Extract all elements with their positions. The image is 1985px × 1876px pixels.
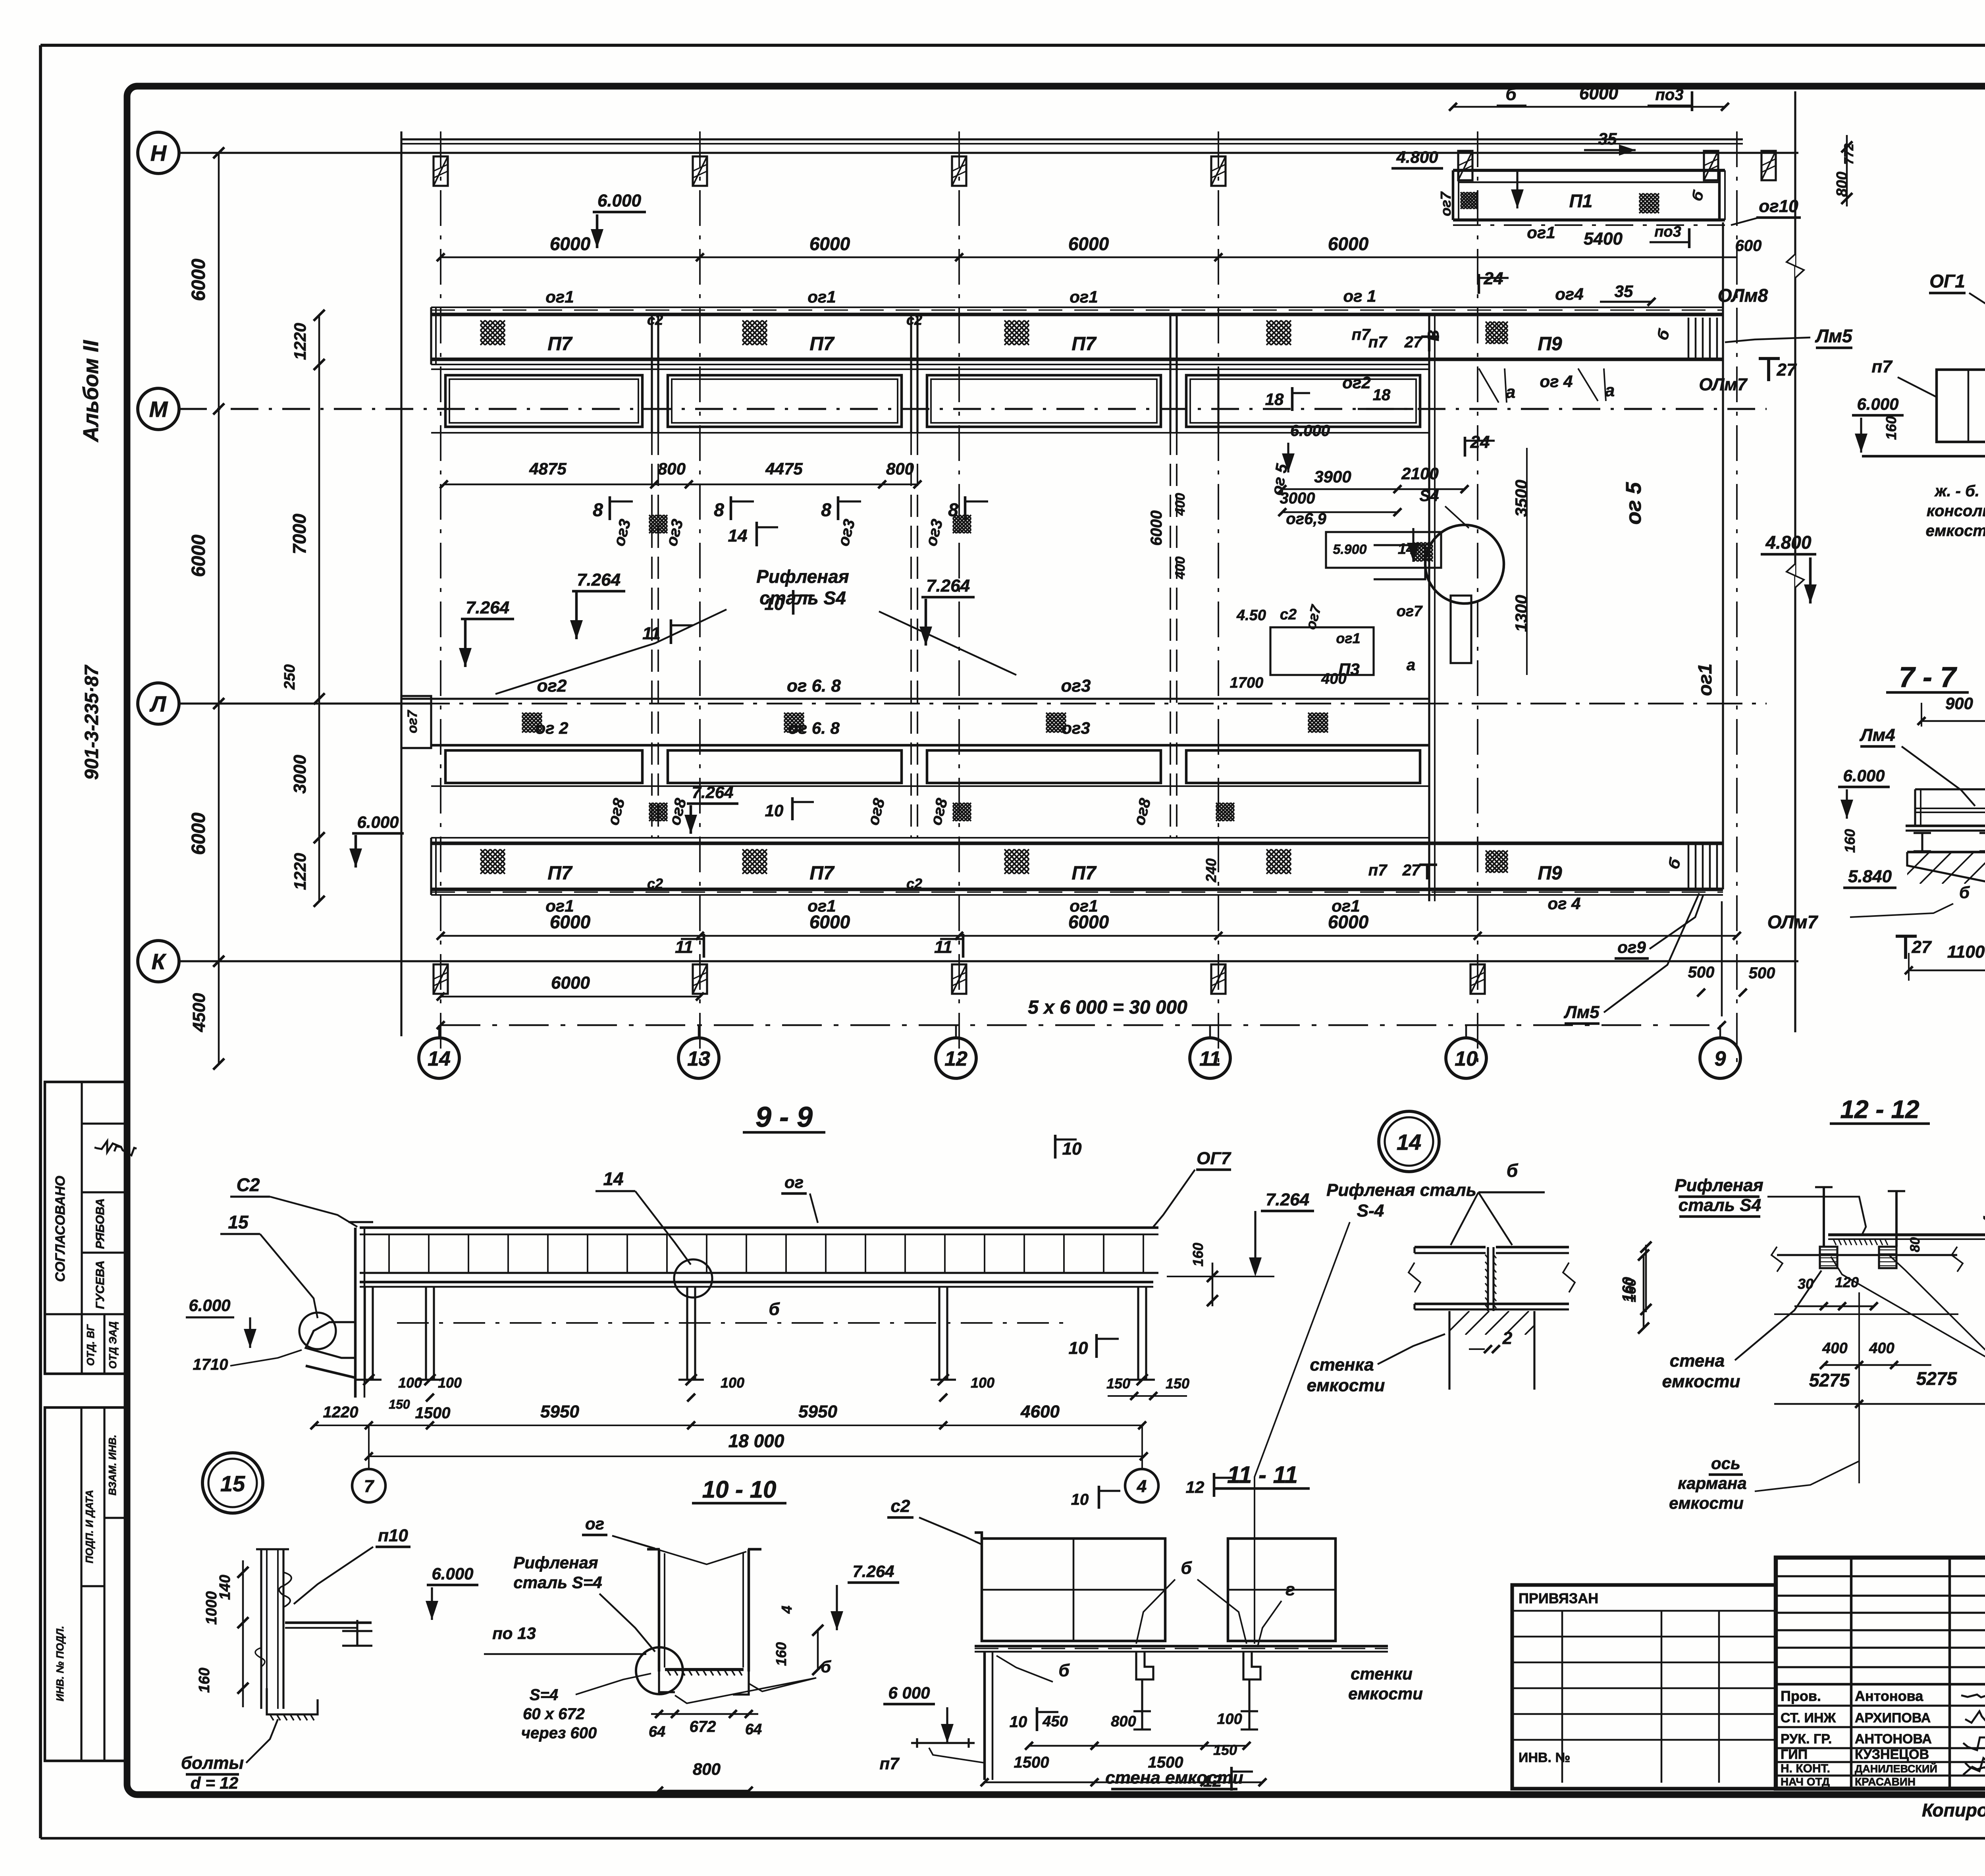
- svg-text:ог1: ог1: [1695, 663, 1716, 696]
- svg-text:п7: п7: [1871, 357, 1893, 376]
- svg-text:ог7: ог7: [405, 710, 420, 733]
- svg-text:Лм5: Лм5: [1815, 326, 1853, 346]
- svg-text:6000: 6000: [1328, 912, 1369, 932]
- svg-text:250: 250: [281, 664, 298, 690]
- svg-text:б: б: [821, 1657, 831, 1676]
- svg-text:1500: 1500: [1014, 1754, 1049, 1771]
- svg-text:ГУСЕВА: ГУСЕВА: [94, 1261, 107, 1309]
- svg-text:К: К: [152, 949, 167, 974]
- svg-text:ог3: ог3: [1062, 719, 1090, 737]
- svg-text:по3: по3: [1655, 86, 1683, 104]
- svg-text:АНТОНОВА: АНТОНОВА: [1855, 1731, 1932, 1747]
- svg-text:6.000: 6.000: [597, 191, 642, 210]
- svg-text:6 000: 6 000: [888, 1683, 930, 1702]
- svg-text:консоль: консоль: [1927, 502, 1985, 520]
- svg-text:п10: п10: [378, 1526, 408, 1545]
- svg-text:800: 800: [693, 1760, 721, 1778]
- svg-text:6000: 6000: [1328, 233, 1369, 254]
- svg-text:ог 4: ог 4: [1548, 894, 1580, 913]
- svg-text:СТ. ИНЖ: СТ. ИНЖ: [1781, 1710, 1836, 1726]
- svg-text:Л: Л: [149, 691, 167, 716]
- svg-text:11: 11: [675, 937, 693, 957]
- svg-text:ог1: ог1: [1070, 287, 1098, 306]
- svg-text:10: 10: [1455, 1047, 1478, 1070]
- svg-text:800: 800: [658, 459, 686, 478]
- svg-text:S4: S4: [1420, 487, 1439, 505]
- svg-text:кармана: кармана: [1678, 1474, 1746, 1492]
- svg-text:с2: с2: [1280, 606, 1297, 623]
- svg-text:б: б: [769, 1300, 780, 1319]
- svg-text:400: 400: [1321, 671, 1346, 687]
- svg-text:12: 12: [1186, 1478, 1204, 1496]
- svg-text:ог6,9: ог6,9: [1286, 510, 1326, 528]
- svg-text:8: 8: [593, 499, 603, 520]
- svg-text:5275: 5275: [1916, 1368, 1958, 1389]
- svg-text:27: 27: [1777, 360, 1797, 380]
- svg-text:ог 2: ог 2: [535, 719, 568, 737]
- svg-text:7.264: 7.264: [577, 570, 621, 590]
- svg-text:14: 14: [428, 1047, 451, 1070]
- svg-text:60 х 672: 60 х 672: [523, 1705, 585, 1723]
- svg-text:18 000: 18 000: [728, 1431, 784, 1451]
- svg-text:100: 100: [721, 1375, 744, 1391]
- svg-text:с2: с2: [647, 875, 663, 892]
- svg-text:емкости: емкости: [1307, 1376, 1385, 1395]
- svg-text:400: 400: [1173, 557, 1188, 580]
- svg-text:160: 160: [1883, 416, 1899, 440]
- svg-text:П7: П7: [1072, 334, 1097, 355]
- svg-text:через 600: через 600: [521, 1724, 597, 1742]
- svg-text:ОЛм8: ОЛм8: [1718, 285, 1768, 306]
- svg-text:ИНВ. №: ИНВ. №: [1519, 1750, 1570, 1765]
- svg-text:5400: 5400: [1584, 229, 1623, 249]
- svg-text:ог7: ог7: [1438, 191, 1454, 216]
- svg-text:80: 80: [1908, 1237, 1923, 1252]
- svg-text:ПОДП. И ДАТА: ПОДП. И ДАТА: [83, 1490, 95, 1563]
- svg-text:емкости: емкости: [1348, 1684, 1423, 1703]
- svg-text:ОГ1: ОГ1: [1929, 271, 1965, 291]
- svg-text:п7: п7: [879, 1754, 900, 1773]
- svg-text:по 13: по 13: [492, 1624, 536, 1643]
- svg-text:400: 400: [1173, 493, 1188, 516]
- svg-text:15: 15: [220, 1471, 245, 1496]
- svg-text:2100: 2100: [1401, 464, 1438, 483]
- svg-text:Лм4: Лм4: [1859, 725, 1895, 745]
- svg-text:Лм5: Лм5: [1563, 1003, 1600, 1022]
- svg-text:ог: ог: [585, 1514, 604, 1533]
- svg-text:В: В: [1425, 330, 1442, 341]
- svg-text:3000: 3000: [290, 755, 310, 794]
- svg-text:ОЛм7: ОЛм7: [1767, 912, 1819, 932]
- svg-text:11: 11: [934, 937, 952, 957]
- svg-text:стена емкости: стена емкости: [1105, 1768, 1243, 1787]
- svg-text:1500: 1500: [415, 1404, 451, 1422]
- svg-text:КРАСАВИН: КРАСАВИН: [1855, 1776, 1916, 1788]
- svg-text:13: 13: [687, 1047, 710, 1070]
- svg-text:П7: П7: [809, 863, 835, 884]
- svg-text:емкости: емкости: [1926, 522, 1985, 540]
- svg-text:6.000: 6.000: [1843, 766, 1885, 785]
- svg-text:ог2: ог2: [537, 676, 567, 696]
- svg-text:11: 11: [1199, 1047, 1221, 1070]
- svg-text:АРХИПОВА: АРХИПОВА: [1855, 1710, 1931, 1726]
- svg-text:100: 100: [438, 1375, 462, 1391]
- svg-text:12 - 12: 12 - 12: [1840, 1095, 1919, 1124]
- svg-text:100: 100: [398, 1375, 422, 1391]
- svg-text:КУЗНЕЦОВ: КУЗНЕЦОВ: [1855, 1747, 1929, 1762]
- svg-text:27: 27: [1402, 862, 1421, 879]
- svg-text:1000: 1000: [203, 1591, 220, 1625]
- svg-text:6000: 6000: [551, 973, 590, 993]
- svg-text:d = 12: d = 12: [191, 1774, 238, 1792]
- svg-text:ог7: ог7: [1397, 603, 1423, 620]
- svg-text:ог3: ог3: [1061, 676, 1091, 696]
- svg-text:27: 27: [1912, 937, 1932, 957]
- svg-text:Рифленая: Рифленая: [1675, 1176, 1763, 1195]
- svg-text:6000: 6000: [1148, 511, 1165, 546]
- svg-text:6000: 6000: [188, 534, 209, 577]
- svg-text:ог: ог: [784, 1173, 804, 1192]
- svg-text:4500: 4500: [189, 993, 209, 1032]
- svg-text:10: 10: [765, 594, 784, 614]
- svg-text:4.50: 4.50: [1236, 607, 1266, 624]
- svg-text:7.264: 7.264: [466, 598, 509, 617]
- svg-text:ГИП: ГИП: [1781, 1747, 1808, 1762]
- svg-text:П1: П1: [1569, 191, 1593, 211]
- svg-text:1700: 1700: [1230, 675, 1264, 691]
- svg-text:150: 150: [389, 1397, 410, 1411]
- svg-text:б: б: [1181, 1558, 1192, 1578]
- svg-text:27: 27: [1404, 334, 1423, 351]
- svg-text:а: а: [1506, 382, 1515, 402]
- svg-text:10: 10: [1010, 1713, 1027, 1731]
- svg-text:18: 18: [1373, 386, 1391, 404]
- svg-text:800: 800: [1834, 172, 1850, 197]
- svg-text:4: 4: [779, 1606, 795, 1614]
- svg-text:ИНВ. № ПОДЛ.: ИНВ. № ПОДЛ.: [54, 1626, 66, 1701]
- svg-text:9: 9: [1715, 1047, 1726, 1070]
- svg-text:б: б: [1505, 85, 1517, 104]
- svg-text:4.800: 4.800: [1396, 148, 1438, 166]
- svg-text:ось: ось: [1711, 1454, 1740, 1473]
- svg-text:по3: по3: [1654, 224, 1681, 240]
- svg-text:6.000: 6.000: [1857, 395, 1898, 413]
- svg-text:240: 240: [1203, 858, 1219, 883]
- svg-text:6000: 6000: [809, 233, 850, 254]
- svg-text:64: 64: [649, 1724, 665, 1740]
- svg-text:6000: 6000: [550, 912, 591, 932]
- svg-text:160: 160: [773, 1642, 789, 1666]
- svg-text:4475: 4475: [765, 459, 803, 478]
- svg-text:672: 672: [690, 1718, 716, 1735]
- svg-text:S=4: S=4: [530, 1686, 558, 1704]
- svg-text:5275: 5275: [1809, 1370, 1850, 1390]
- svg-text:10: 10: [1062, 1139, 1082, 1159]
- svg-text:800: 800: [1111, 1713, 1136, 1730]
- svg-text:С2: С2: [237, 1174, 260, 1195]
- svg-text:10: 10: [1069, 1338, 1088, 1358]
- svg-text:14: 14: [603, 1168, 623, 1189]
- svg-text:стенка: стенка: [1310, 1355, 1374, 1375]
- svg-text:ОТД ЭАД: ОТД ЭАД: [107, 1321, 119, 1369]
- svg-text:Рифленая сталь: Рифленая сталь: [1326, 1180, 1476, 1200]
- svg-text:6000: 6000: [188, 258, 209, 301]
- svg-text:24: 24: [1470, 432, 1490, 452]
- svg-text:150: 150: [1166, 1375, 1189, 1392]
- svg-text:с2: с2: [906, 875, 922, 892]
- svg-text:7: 7: [364, 1477, 375, 1496]
- svg-text:Пров.: Пров.: [1781, 1688, 1821, 1704]
- svg-text:6000: 6000: [1068, 233, 1109, 254]
- svg-text:8: 8: [821, 499, 831, 520]
- svg-text:НАЧ ОТД: НАЧ ОТД: [1781, 1776, 1830, 1788]
- svg-text:7.264: 7.264: [1266, 1190, 1309, 1209]
- svg-text:РЯБОВА: РЯБОВА: [94, 1198, 107, 1249]
- svg-text:4.800: 4.800: [1765, 532, 1812, 553]
- svg-text:ог9: ог9: [1617, 938, 1646, 956]
- svg-text:35: 35: [1615, 282, 1633, 301]
- svg-text:ОГ7: ОГ7: [1197, 1149, 1231, 1168]
- svg-text:160: 160: [1623, 1278, 1639, 1302]
- svg-text:Альбом II: Альбом II: [79, 340, 103, 443]
- svg-text:РУК. ГР.: РУК. ГР.: [1781, 1731, 1832, 1747]
- svg-text:100: 100: [1217, 1711, 1242, 1728]
- svg-text:ог1: ог1: [545, 287, 574, 306]
- svg-text:сталь S=4: сталь S=4: [513, 1573, 602, 1592]
- svg-text:СОГЛАСОВАНО: СОГЛАСОВАНО: [53, 1176, 68, 1282]
- svg-text:500: 500: [1749, 964, 1775, 982]
- svg-text:11 - 11: 11 - 11: [1227, 1461, 1298, 1488]
- svg-text:7.264: 7.264: [852, 1562, 894, 1581]
- svg-text:5.900: 5.900: [1333, 542, 1366, 557]
- svg-text:стена: стена: [1670, 1351, 1725, 1371]
- svg-text:7.264: 7.264: [926, 576, 970, 596]
- svg-text:5950: 5950: [798, 1402, 837, 1421]
- svg-text:Копировал: Антипово: Копировал: Антипово: [1922, 1800, 1985, 1820]
- svg-text:3000: 3000: [1280, 490, 1315, 507]
- svg-text:6000: 6000: [809, 912, 850, 932]
- svg-text:14: 14: [1397, 1130, 1421, 1155]
- svg-text:1710: 1710: [193, 1356, 228, 1373]
- svg-text:Рифленая: Рифленая: [513, 1553, 598, 1572]
- svg-text:ПРИВЯЗАН: ПРИВЯЗАН: [1519, 1590, 1598, 1606]
- svg-text:8: 8: [714, 499, 724, 520]
- svg-text:6000: 6000: [188, 812, 209, 855]
- svg-text:Антонова: Антонова: [1855, 1688, 1923, 1704]
- svg-text:П7: П7: [547, 334, 573, 355]
- svg-text:450: 450: [1042, 1713, 1068, 1730]
- svg-text:6.000: 6.000: [432, 1564, 473, 1583]
- svg-text:п7: п7: [1368, 334, 1388, 351]
- svg-text:10: 10: [1071, 1491, 1089, 1508]
- svg-text:12: 12: [944, 1047, 967, 1070]
- svg-text:ог2: ог2: [1342, 373, 1370, 392]
- svg-text:9 - 9: 9 - 9: [755, 1101, 813, 1133]
- svg-text:14: 14: [728, 526, 748, 546]
- svg-text:с2: с2: [906, 312, 922, 328]
- svg-text:г: г: [1285, 1580, 1295, 1599]
- svg-text:Рифленая: Рифленая: [756, 566, 849, 587]
- svg-text:ог4: ог4: [1555, 285, 1583, 303]
- svg-text:S-4: S-4: [1357, 1201, 1384, 1220]
- svg-text:ог1: ог1: [807, 287, 836, 306]
- svg-text:ог 6. 8: ог 6. 8: [787, 676, 841, 696]
- svg-text:б: б: [1959, 883, 1970, 902]
- svg-text:б: б: [1507, 1160, 1519, 1181]
- svg-text:11: 11: [642, 624, 661, 643]
- svg-text:150: 150: [1106, 1375, 1130, 1392]
- svg-text:150: 150: [1213, 1742, 1237, 1758]
- svg-text:ог 1: ог 1: [1343, 287, 1376, 305]
- svg-text:6000: 6000: [1579, 84, 1618, 103]
- svg-text:6.000: 6.000: [1290, 422, 1330, 440]
- svg-text:400: 400: [1822, 1340, 1847, 1357]
- svg-text:п7: п7: [1368, 862, 1388, 879]
- svg-text:1220: 1220: [323, 1404, 358, 1421]
- svg-text:с2: с2: [647, 312, 663, 328]
- svg-text:стенки: стенки: [1351, 1664, 1413, 1683]
- svg-text:ОТД. ВГ: ОТД. ВГ: [85, 1324, 96, 1366]
- svg-text:6.000: 6.000: [189, 1296, 230, 1315]
- svg-text:ог 6. 8: ог 6. 8: [788, 719, 840, 737]
- svg-text:П7: П7: [1072, 863, 1097, 884]
- svg-text:ДАНИЛЕВСКИЙ: ДАНИЛЕВСКИЙ: [1855, 1762, 1937, 1775]
- svg-text:6.000: 6.000: [357, 813, 399, 831]
- svg-text:10: 10: [765, 801, 784, 820]
- svg-text:800: 800: [886, 459, 914, 478]
- svg-text:30: 30: [1798, 1276, 1813, 1292]
- svg-text:6000: 6000: [1068, 912, 1109, 932]
- svg-text:35: 35: [1598, 129, 1617, 148]
- svg-text:П7: П7: [547, 863, 573, 884]
- svg-text:сталь S4: сталь S4: [1679, 1195, 1761, 1215]
- svg-text:П9: П9: [1538, 863, 1562, 884]
- svg-text:5950: 5950: [540, 1402, 579, 1421]
- svg-text:а: а: [1605, 381, 1615, 400]
- svg-text:ВЗАМ. ИНВ.: ВЗАМ. ИНВ.: [106, 1434, 118, 1495]
- svg-text:100: 100: [971, 1375, 994, 1391]
- svg-text:7 - 7: 7 - 7: [1899, 661, 1957, 693]
- svg-text:400: 400: [1869, 1340, 1894, 1357]
- svg-text:2: 2: [1502, 1328, 1513, 1348]
- svg-text:ог 5: ог 5: [1622, 482, 1646, 525]
- svg-text:64: 64: [745, 1721, 762, 1738]
- svg-text:ог10: ог10: [1759, 197, 1798, 216]
- svg-text:ог 4: ог 4: [1540, 372, 1573, 391]
- svg-text:4875: 4875: [529, 459, 567, 478]
- svg-text:ог1: ог1: [1527, 223, 1555, 242]
- svg-text:ог1: ог1: [1336, 630, 1360, 646]
- svg-text:1100: 1100: [1947, 942, 1985, 962]
- svg-text:18: 18: [1265, 390, 1284, 409]
- svg-text:с2: с2: [891, 1496, 910, 1516]
- svg-text:900: 900: [1945, 694, 1973, 713]
- svg-text:160: 160: [1190, 1243, 1206, 1267]
- svg-text:1220: 1220: [291, 323, 309, 360]
- svg-text:3900: 3900: [1314, 467, 1351, 486]
- svg-text:а: а: [1407, 656, 1415, 674]
- svg-text:П7: П7: [809, 334, 835, 355]
- svg-text:ж. - б.: ж. - б.: [1934, 482, 1979, 500]
- svg-text:160: 160: [196, 1668, 213, 1693]
- svg-text:160: 160: [1842, 829, 1858, 853]
- svg-text:500: 500: [1688, 964, 1715, 981]
- svg-text:4: 4: [1137, 1477, 1147, 1496]
- svg-text:М: М: [149, 397, 168, 422]
- svg-text:4: 4: [1980, 1216, 1985, 1224]
- svg-text:7000: 7000: [289, 513, 310, 554]
- svg-text:Н. КОНТ.: Н. КОНТ.: [1781, 1762, 1830, 1775]
- svg-text:б: б: [1058, 1661, 1070, 1680]
- svg-text:болты: болты: [181, 1753, 244, 1773]
- svg-text:901-3-235·87: 901-3-235·87: [81, 665, 102, 780]
- svg-text:1220: 1220: [291, 853, 309, 890]
- svg-text:15: 15: [228, 1212, 249, 1232]
- svg-text:п7: п7: [1352, 326, 1371, 343]
- svg-text:5 x 6 000 = 30 000: 5 x 6 000 = 30 000: [1028, 997, 1187, 1018]
- svg-text:4600: 4600: [1020, 1402, 1060, 1421]
- svg-text:600: 600: [1735, 237, 1762, 255]
- svg-text:10 - 10: 10 - 10: [702, 1476, 777, 1503]
- svg-text:Н: Н: [150, 141, 167, 166]
- svg-text:5.840: 5.840: [1848, 867, 1892, 886]
- svg-text:7.264: 7.264: [692, 783, 733, 802]
- svg-text:П9: П9: [1538, 334, 1562, 355]
- svg-text:емкости: емкости: [1669, 1494, 1744, 1512]
- svg-text:емкости: емкости: [1662, 1372, 1740, 1391]
- svg-text:6000: 6000: [550, 233, 591, 254]
